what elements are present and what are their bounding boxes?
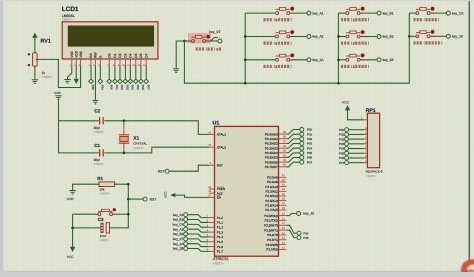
RP1 pin 6: [364, 146, 368, 149]
junction rail key_JS: [408, 35, 411, 38]
svg-text:P1.5: P1.5: [217, 240, 224, 244]
svg-text:XTAL2: XTAL2: [217, 145, 226, 149]
node key_A1 terminal: [184, 213, 188, 217]
RP1 pin 1: [364, 119, 368, 121]
ground crystal net: [55, 95, 61, 97]
svg-text:<TEXT>: <TEXT>: [213, 261, 224, 265]
svg-text:RESPACK-8: RESPACK-8: [366, 169, 383, 173]
svg-text:VCC: VCC: [67, 255, 75, 259]
node P05 terminal under D5: [134, 79, 139, 84]
svg-text:<TEXT>: <TEXT>: [366, 174, 377, 178]
svg-text:P05: P05: [136, 85, 140, 90]
wire RP1 P06: [349, 157, 364, 159]
node P04 terminal under D4: [128, 79, 133, 84]
node P03 terminal at RP1: [345, 142, 349, 146]
wire P1.1 to terminal: [188, 220, 209, 223]
LCD display LCD1 LM016L: [62, 6, 158, 59]
svg-text:key_JS: key_JS: [303, 212, 315, 216]
wire P1.0 to terminal: [188, 215, 209, 218]
wire XTAL1 net: [59, 120, 98, 122]
svg-text:P0.3/AD3: P0.3/AD3: [265, 146, 278, 150]
node P00 terminal: [300, 128, 304, 132]
node key_A2 terminal: [184, 227, 188, 231]
capacitor C3: [98, 217, 110, 242]
svg-text:P0.0/AD0: P0.0/AD0: [265, 132, 278, 136]
svg-text:P01: P01: [307, 132, 313, 136]
wire RP1 P07: [349, 162, 364, 164]
node key_1B terminal: [184, 247, 188, 251]
U1 pin 3 P1.2: [207, 224, 224, 229]
caption for key_1B: [341, 65, 369, 68]
U1 pin 16 P3.6/WR: [266, 241, 287, 246]
svg-text:P3.1/TXD: P3.1/TXD: [265, 219, 279, 223]
wire P0.2 to terminal: [286, 139, 300, 144]
wire VSS to ground: [68, 66, 72, 80]
svg-text:key_A2: key_A2: [313, 35, 324, 39]
wire LCD D5 to terminal: [135, 66, 137, 80]
power terminal VCC at EA (left arrow): [164, 191, 176, 198]
svg-text:D2: D2: [118, 53, 122, 57]
U1 pin 8 P1.7: [207, 248, 224, 253]
U1 pin 36 P0.3/AD3: [265, 145, 287, 150]
svg-text:P0.7/AD7: P0.7/AD7: [265, 165, 278, 169]
RP1 pin 7: [364, 150, 368, 153]
U1 pin 35 P0.4/AD4: [265, 150, 287, 155]
svg-text:P01: P01: [339, 133, 345, 137]
svg-text:key_JS: key_JS: [452, 35, 464, 39]
node P07 terminal at RP1: [345, 161, 349, 165]
red overlay logo bottom right: [461, 259, 474, 277]
wire key_ST left net to ground: [176, 41, 184, 69]
pushbutton key_A1: [245, 7, 323, 16]
node P01 terminal at RP1: [345, 132, 349, 136]
svg-text:GND: GND: [67, 197, 75, 201]
node P06 terminal under D6: [139, 79, 144, 84]
sheet border right: [468, 0, 470, 272]
U1 pin 31 EA: [208, 194, 221, 199]
wire RP1 P04: [349, 148, 364, 150]
wire VCC to RV1: [34, 38, 36, 53]
pushbutton key_JS: [409, 30, 463, 39]
U1 pin 13 P3.3/INT1: [264, 227, 286, 232]
wire P1.3 to terminal: [188, 229, 209, 232]
U1 pin 11 P3.1/TXD: [265, 217, 287, 222]
U1 pin 12 P3.2/INT0: [264, 222, 286, 227]
wire XTAL2 net: [59, 152, 98, 154]
wire P0.5 to terminal: [286, 153, 300, 158]
svg-text:R1: R1: [97, 176, 103, 181]
node P04 terminal: [300, 146, 304, 150]
svg-text:P1.7: P1.7: [217, 250, 224, 254]
U1 pin 4 P1.3: [207, 229, 224, 234]
svg-text:<TEXT>: <TEXT>: [99, 238, 110, 242]
junction rail1 bus: [244, 82, 247, 85]
RP1 pin 5: [364, 141, 368, 144]
wire P0.6 to terminal: [286, 158, 300, 163]
U1 pin 30 ALE: [208, 190, 222, 195]
svg-text:RST: RST: [158, 169, 165, 173]
U1 pin 26 P2.5/A13: [265, 198, 286, 203]
svg-text:P01: P01: [115, 85, 119, 90]
resistor pack RP1 RESPACK-8: [366, 108, 383, 178]
svg-text:U1: U1: [213, 121, 220, 127]
junction X1 bottom: [123, 152, 126, 155]
wire LCD D1 to terminal: [114, 66, 116, 80]
sheet border left: [0, 0, 3, 272]
resistor R1: [97, 176, 114, 195]
svg-text:VSS: VSS: [70, 51, 74, 57]
wire VDD to power: [75, 66, 77, 79]
svg-text:P0.5/AD5: P0.5/AD5: [265, 156, 278, 160]
wire P0.3 to terminal: [286, 144, 300, 149]
svg-text:C3: C3: [98, 217, 104, 222]
wire R1 right to reset net: [110, 184, 128, 228]
U1 pin 23 P2.2/A10: [265, 184, 286, 189]
caption for key_1A: [264, 65, 292, 68]
svg-text:P34: P34: [303, 231, 309, 235]
ground under RV1: [32, 79, 38, 81]
svg-text:key_B1: key_B1: [173, 218, 184, 222]
wire key_ST to terminal: [206, 37, 218, 41]
svg-text:P03: P03: [339, 142, 345, 146]
svg-text:RS: RS: [89, 53, 93, 57]
svg-text:P00: P00: [109, 85, 113, 90]
wire P3.2 to P34 terminal: [286, 225, 297, 233]
svg-text:GND: GND: [54, 91, 62, 95]
node P34 terminal: [297, 231, 301, 235]
wire P3.3 to P35 terminal: [286, 230, 297, 238]
U1 pin 6 P1.5: [207, 239, 224, 244]
svg-text:P3.2/INT0: P3.2/INT0: [264, 223, 278, 227]
U1 pin 27 P2.6/A14: [265, 202, 286, 207]
wire RW to ground: [94, 66, 96, 101]
U1 pin 33 P0.6/AD6: [265, 159, 287, 164]
pushbutton key_1B: [338, 53, 394, 62]
svg-text:<TEXT>: <TEXT>: [42, 75, 53, 79]
svg-text:<TEXT>: <TEXT>: [94, 130, 105, 134]
pushbutton key_A2: [245, 30, 323, 39]
caption for key_JS: [414, 41, 443, 44]
svg-text:key_B2: key_B2: [383, 35, 394, 39]
U1 pin 9 RST: [209, 162, 223, 167]
svg-text:P03: P03: [126, 85, 130, 90]
ground R1: [69, 190, 75, 192]
wire P3.0 to key_JS terminal: [286, 214, 296, 216]
ground for key buttons: [173, 68, 179, 70]
svg-text:P2.6/A14: P2.6/A14: [265, 204, 278, 208]
svg-text:P2.1/A9: P2.1/A9: [267, 180, 278, 184]
wire button rail column 1: [244, 13, 246, 83]
pushbutton key_B1: [338, 7, 393, 16]
caption for key_ST: [196, 47, 221, 50]
node key_B2 terminal: [184, 232, 188, 236]
U1 pin 29 PSEN: [208, 186, 225, 191]
U1 pin 32 P0.7/AD7: [265, 164, 287, 169]
pushbutton key_B2: [338, 30, 393, 39]
svg-text:P00: P00: [339, 128, 345, 132]
wire P0.0 to terminal: [286, 130, 300, 135]
svg-text:P06: P06: [339, 156, 345, 160]
wire VCC to RP1 pin 1: [348, 110, 364, 120]
wire P1.7 to terminal: [188, 249, 209, 252]
node P35 terminal: [297, 236, 301, 240]
U1 pin 28 P2.7/A15: [265, 207, 286, 212]
svg-text:D5: D5: [134, 53, 138, 57]
svg-text:P2.5/A13: P2.5/A13: [265, 199, 278, 203]
svg-text:RW: RW: [94, 52, 98, 57]
svg-text:key_B2: key_B2: [173, 232, 184, 236]
svg-text:P0.4/AD4: P0.4/AD4: [265, 151, 278, 155]
svg-text:key_ST: key_ST: [173, 237, 184, 241]
node P00 terminal at RP1: [345, 128, 349, 132]
svg-text:key_A1: key_A1: [173, 213, 184, 217]
U1 pin 18 XTAL2: [208, 144, 226, 149]
U1 pin 7 P1.6: [207, 244, 224, 249]
wire RP1 P02: [349, 138, 364, 140]
svg-text:P05: P05: [307, 151, 313, 155]
svg-text:VEE: VEE: [79, 51, 83, 57]
U1 pin 38 P0.1/AD1: [265, 136, 287, 141]
wire button rail column 2: [337, 13, 339, 83]
svg-text:P1.2: P1.2: [217, 225, 224, 229]
node P06 terminal: [300, 156, 304, 160]
U1 pin 2 P1.1: [207, 219, 224, 224]
svg-text:P3.7/RD: P3.7/RD: [266, 248, 278, 252]
svg-text:LCD1: LCD1: [62, 6, 79, 13]
U1 pin 5 P1.4: [207, 234, 224, 239]
power terminal VDD (down arrow): [74, 79, 79, 84]
U1 pin 14 P3.4/T0: [267, 232, 286, 237]
RP1 pin 2: [364, 127, 368, 130]
junction C3 left: [71, 227, 74, 230]
svg-text:P06: P06: [141, 85, 145, 90]
node P02 terminal: [300, 137, 304, 141]
node P01 terminal: [300, 132, 304, 136]
node key_1A terminal: [184, 242, 188, 246]
node P07 terminal: [300, 160, 304, 164]
ground under VSS: [64, 79, 70, 81]
wire RS to terminal: [90, 66, 92, 80]
wire P0.4 to terminal: [286, 148, 300, 153]
svg-text:P02: P02: [120, 85, 124, 90]
svg-text:P2.0/A8: P2.0/A8: [267, 176, 278, 180]
svg-text:P04: P04: [339, 147, 345, 151]
U1 pin 25 P2.4/A12: [265, 193, 286, 198]
svg-text:P03: P03: [307, 142, 313, 146]
wire LCD D3 to terminal: [124, 66, 126, 80]
svg-text:VDD: VDD: [74, 50, 78, 57]
svg-text:D3: D3: [124, 53, 128, 57]
junction X1 top: [123, 119, 126, 122]
svg-text:key_A1: key_A1: [313, 11, 324, 15]
wire P1.2 to terminal: [188, 224, 209, 227]
svg-text:RST: RST: [217, 163, 223, 167]
svg-text:key_1B: key_1B: [173, 247, 183, 251]
U1 pin 37 P0.2/AD2: [265, 140, 287, 145]
node P05 terminal: [300, 151, 304, 155]
U1 pin 24 P2.3/A11: [265, 188, 286, 193]
microcontroller U1 AT89C51: [213, 121, 279, 266]
junction key_ST: [183, 40, 186, 43]
svg-text:key_1A: key_1A: [173, 242, 184, 246]
svg-text:key_1A: key_1A: [313, 58, 325, 62]
potentiometer RV1: [28, 38, 53, 79]
svg-text:key_ST: key_ST: [209, 30, 220, 34]
wire E to terminal: [99, 66, 101, 80]
svg-text:P1.0: P1.0: [217, 216, 224, 220]
wire VEE to RV1 wiper: [39, 59, 80, 87]
wire RP1 P01: [349, 133, 364, 135]
svg-text:XTAL1: XTAL1: [217, 133, 226, 137]
svg-text:C1: C1: [94, 143, 100, 148]
svg-text:P3.4/T0: P3.4/T0: [267, 233, 278, 237]
node RST terminal at U1: [165, 169, 169, 173]
wire P1.5 to terminal: [188, 239, 209, 242]
svg-text:P07: P07: [307, 160, 313, 164]
U1 pin 1 P1.0: [207, 215, 224, 220]
ground under RW: [93, 99, 99, 101]
svg-text:P34: P34: [101, 85, 105, 90]
node P02 terminal at RP1: [345, 137, 349, 141]
wire LCD D7 to terminal: [145, 66, 147, 80]
svg-text:P0.6/AD6: P0.6/AD6: [265, 160, 278, 164]
svg-text:P1.3: P1.3: [217, 230, 224, 234]
U1 pin 22 P2.1/A9: [267, 179, 286, 184]
junction rail key_B2: [337, 35, 340, 38]
LCD pin name labels: [70, 50, 148, 57]
svg-text:P2.7/A15: P2.7/A15: [265, 208, 278, 212]
caption for key_A2: [264, 42, 292, 45]
svg-text:P00: P00: [307, 128, 313, 132]
svg-text:RST: RST: [150, 197, 157, 201]
wire RST terminal to U1 pin 9: [169, 165, 209, 171]
svg-text:P3.5/T1: P3.5/T1: [267, 238, 278, 242]
RP1 pin 8: [364, 155, 368, 158]
node P34 terminal under E: [98, 79, 103, 84]
caption for key_B1: [341, 18, 369, 21]
node P03 terminal: [300, 142, 304, 146]
svg-text:D0: D0: [107, 53, 111, 57]
RP1 pin 4: [364, 136, 368, 139]
svg-text:P07: P07: [146, 85, 150, 90]
power terminal VCC RP1 (up arrow): [342, 100, 350, 110]
U1 pin 10 P3.0/RXD: [264, 213, 286, 218]
node P07 terminal under D7: [144, 79, 149, 84]
svg-text:D6: D6: [139, 53, 143, 57]
svg-text:<TEXT>: <TEXT>: [94, 162, 105, 166]
U1 pin 15 P3.5/T1: [267, 237, 286, 242]
wire LCD D4 to terminal: [129, 66, 131, 80]
svg-text:RV1: RV1: [41, 38, 51, 44]
svg-text:P0.2/AD2: P0.2/AD2: [265, 142, 278, 146]
svg-text:P3.0/RXD: P3.0/RXD: [264, 214, 278, 218]
svg-text:P35: P35: [91, 85, 95, 90]
svg-text:VCC: VCC: [342, 100, 350, 104]
svg-text:P2.4/A12: P2.4/A12: [265, 194, 278, 198]
svg-text:P35: P35: [303, 236, 309, 240]
svg-text:key_1B: key_1B: [383, 58, 395, 62]
wire key_ST junction down to button bus: [184, 13, 409, 83]
svg-text:P1.4: P1.4: [217, 235, 224, 239]
svg-text:P02: P02: [339, 137, 345, 141]
pushbutton key_ST (highlighted): [184, 33, 222, 44]
capacitor C2: [94, 109, 105, 134]
svg-text:P07: P07: [339, 161, 345, 165]
RP1 pin 3: [364, 132, 368, 135]
svg-text:<TEXT>: <TEXT>: [133, 146, 144, 150]
wire VCC to EA: [175, 195, 209, 197]
node key_JS terminal: [297, 212, 301, 216]
svg-text:key_B1: key_B1: [383, 11, 394, 15]
caption for key_A1: [264, 18, 292, 21]
svg-text:P05: P05: [339, 151, 345, 155]
svg-text:D7: D7: [144, 53, 148, 57]
wire LCD D2 to terminal: [119, 66, 121, 80]
svg-text:P2.2/A10: P2.2/A10: [265, 185, 278, 189]
svg-text:<TEXT>: <TEXT>: [99, 191, 110, 195]
svg-text:E: E: [99, 56, 103, 58]
wire P0.7 to terminal: [286, 162, 300, 167]
node P06 terminal at RP1: [345, 156, 349, 160]
node P00 terminal under D0: [107, 79, 112, 84]
svg-text:P3.6/WR: P3.6/WR: [266, 243, 279, 247]
wire P1.6 to terminal: [188, 244, 209, 247]
power terminal VCC above RV1 (up arrow): [32, 33, 37, 38]
junction rail key_1A: [244, 58, 247, 61]
svg-text:D4: D4: [129, 53, 133, 57]
svg-text:key_CX: key_CX: [452, 11, 464, 15]
LCD pins 1-14: [70, 59, 146, 67]
svg-text:D1: D1: [113, 53, 117, 57]
svg-text:P1.1: P1.1: [217, 221, 224, 225]
wire left vertical reset: [72, 214, 74, 228]
wire ground vertical: [58, 99, 60, 153]
screen edge bottom: [0, 271, 474, 272]
U1 pin 34 P0.5/AD5: [265, 154, 287, 159]
wire P1.4 to terminal: [188, 234, 209, 237]
power terminal VCC reset (down arrow): [70, 247, 75, 252]
node RST terminal (reset circuit): [143, 197, 147, 201]
svg-text:P04: P04: [307, 146, 313, 150]
screen edge top: [0, 0, 474, 1]
svg-text:P1.6: P1.6: [217, 245, 224, 249]
wire LCD D0 to terminal: [108, 66, 110, 80]
wire LCD D6 to terminal: [140, 66, 142, 80]
node P01 terminal under D1: [113, 79, 118, 84]
svg-text:P0.1/AD1: P0.1/AD1: [265, 137, 278, 141]
caption for key_CX: [414, 18, 439, 21]
node key_CX terminal: [184, 222, 188, 226]
pushbutton key_1A: [245, 53, 324, 62]
svg-text:<TEXT>: <TEXT>: [62, 18, 73, 22]
wire RP1 P05: [349, 152, 364, 154]
wire C3 left to VCC: [73, 228, 101, 247]
svg-text:P02: P02: [307, 137, 313, 141]
wire RV1 to ground: [34, 66, 36, 79]
junction rail key_A2: [244, 35, 247, 38]
capacitor C1: [94, 143, 105, 166]
node P35 terminal under RS: [89, 79, 94, 84]
wire R1 to ground: [73, 184, 99, 190]
U1 pin 39 P0.0/AD0: [265, 131, 287, 136]
junction reset button: [127, 213, 130, 216]
RP1 pin 9: [364, 160, 368, 163]
node P05 terminal at RP1: [345, 151, 349, 155]
junction rail key_1B: [337, 58, 340, 61]
junction R1: [127, 183, 130, 186]
node P04 terminal at RP1: [345, 147, 349, 151]
svg-text:P2.3/A11: P2.3/A11: [265, 190, 278, 194]
